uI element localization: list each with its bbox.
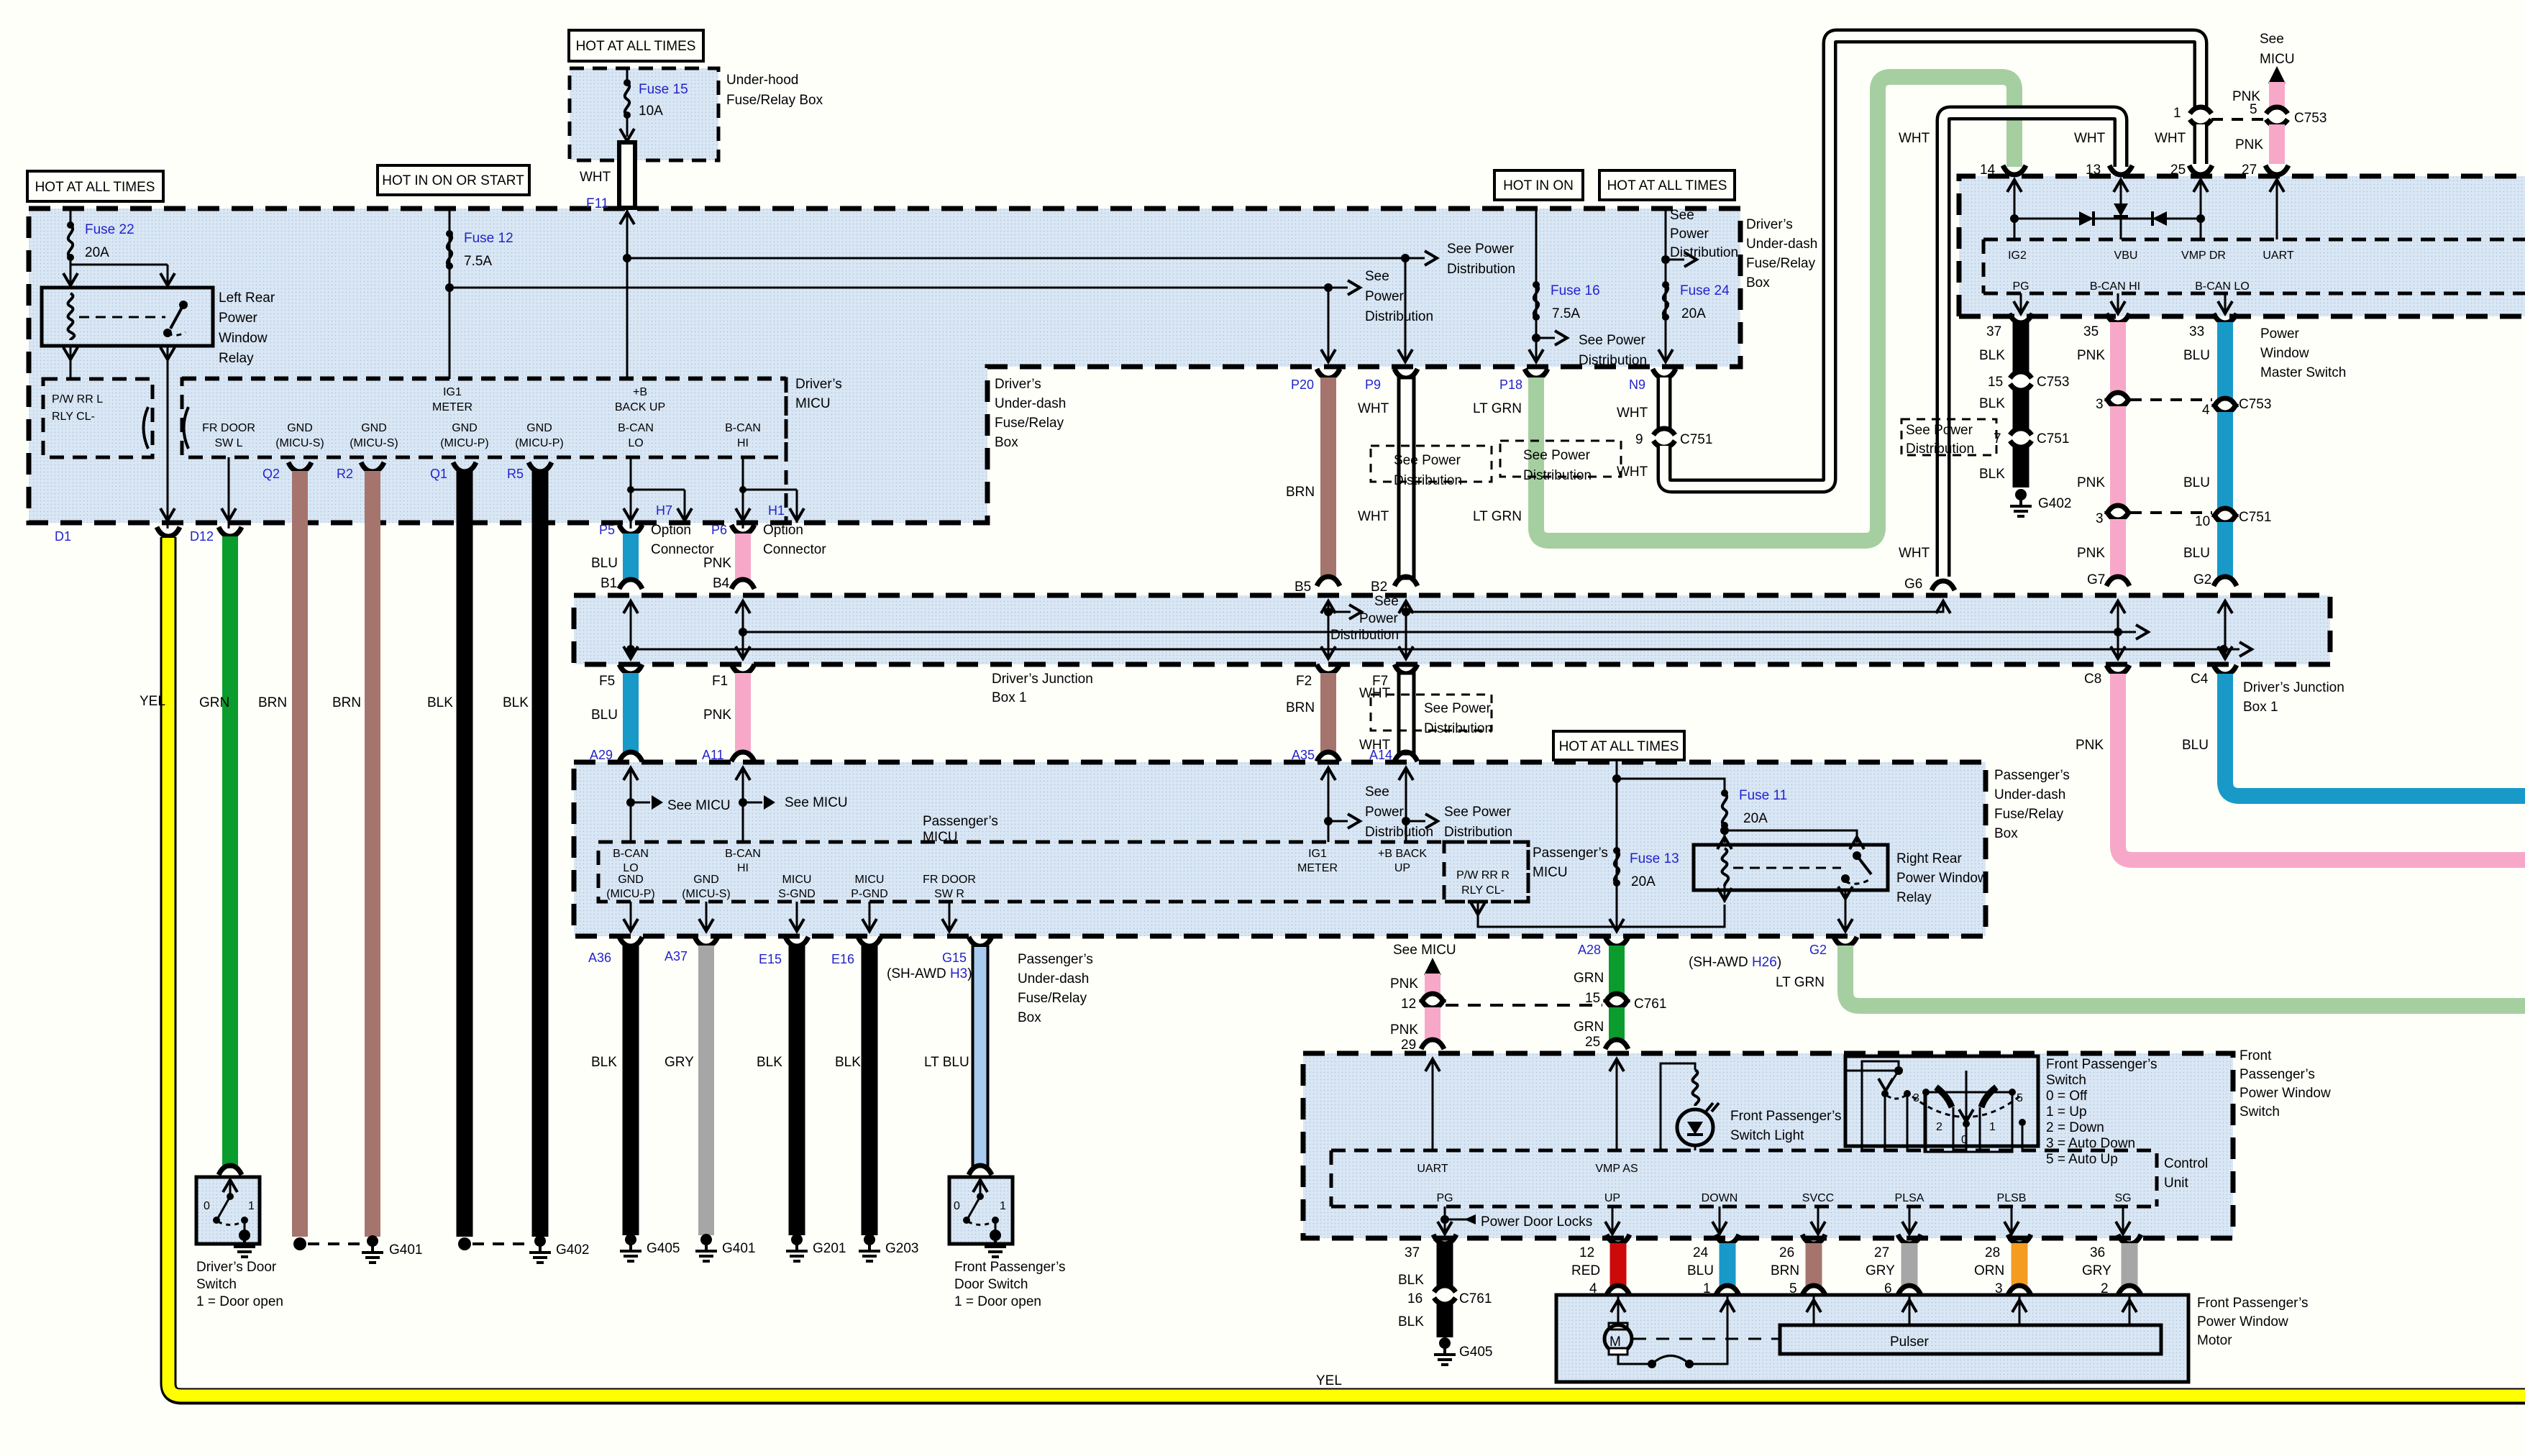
- svg-text:PNK: PNK: [2077, 546, 2105, 561]
- 1/25 connector column: [2155, 106, 2212, 239]
- svg-text:12: 12: [1401, 997, 1416, 1012]
- svg-text:LO: LO: [628, 437, 643, 449]
- svg-text:37: 37: [1405, 1245, 1420, 1260]
- svg-text:E15: E15: [759, 952, 782, 966]
- svg-text:F5: F5: [599, 674, 615, 689]
- relay outputs: [1717, 886, 1853, 933]
- svg-text:R2: R2: [337, 467, 353, 481]
- svg-text:Under-dash: Under-dash: [1994, 787, 2065, 802]
- svg-text:PNK: PNK: [1390, 1022, 1418, 1038]
- D1 yellow wire: [55, 508, 2525, 1396]
- svg-text:Driver’s: Driver’s: [995, 377, 1041, 392]
- svg-text:WHT: WHT: [580, 170, 611, 185]
- svg-text:BLU: BLU: [2183, 546, 2210, 561]
- svg-text:Connector: Connector: [651, 542, 714, 557]
- svg-text:R5: R5: [507, 467, 524, 481]
- svg-text:IG2: IG2: [2008, 249, 2027, 262]
- Q2 dashed to G401: [308, 1242, 360, 1245]
- svg-text:5: 5: [1789, 1281, 1797, 1296]
- svg-text:12: 12: [1579, 1245, 1594, 1260]
- svg-text:C8: C8: [2084, 672, 2101, 687]
- svg-text:Passenger’s: Passenger’s: [923, 814, 998, 829]
- power door locks: [1438, 1207, 1592, 1235]
- svg-text:Right Rear: Right Rear: [1896, 851, 1962, 866]
- torn SPD at F7: [1371, 695, 1492, 736]
- master switch inner wiring: [2010, 203, 2205, 226]
- relay outputs: [63, 346, 175, 528]
- svg-text:BLU: BLU: [2183, 475, 2210, 490]
- svg-text:BACK UP: BACK UP: [615, 401, 665, 413]
- svg-text:24: 24: [1693, 1245, 1709, 1260]
- svg-text:25: 25: [2170, 162, 2186, 178]
- svg-text:See: See: [1670, 208, 1694, 223]
- svg-text:GND: GND: [693, 874, 719, 886]
- svg-text:Fuse/Relay: Fuse/Relay: [1994, 807, 2064, 822]
- svg-text:6: 6: [1884, 1281, 1892, 1296]
- G15 lt blu: [887, 937, 992, 1175]
- svg-text:PNK: PNK: [2077, 475, 2105, 490]
- svg-text:Distribution: Distribution: [1523, 468, 1592, 483]
- svg-text:PNK: PNK: [703, 708, 731, 723]
- svg-text:S-GND: S-GND: [778, 888, 816, 900]
- svg-text:(MICU-P): (MICU-P): [515, 437, 564, 449]
- svg-text:MICU: MICU: [795, 396, 831, 411]
- svg-text:LO: LO: [623, 862, 638, 874]
- E15 black: [757, 937, 846, 1261]
- svg-text:LT GRN: LT GRN: [1776, 975, 1825, 990]
- front passenger door switch: [949, 1177, 1013, 1257]
- svg-text:MICU: MICU: [2260, 52, 2295, 67]
- svg-text:UP: UP: [1604, 1192, 1620, 1204]
- svg-text:C761: C761: [1459, 1291, 1492, 1306]
- svg-text:1: 1: [1989, 1121, 1996, 1133]
- svg-text:VMP DR: VMP DR: [2181, 249, 2226, 262]
- svg-text:+B BACK: +B BACK: [1378, 848, 1427, 860]
- svg-text:25: 25: [1585, 1035, 1600, 1050]
- svg-text:10: 10: [2195, 514, 2210, 529]
- svg-text:WHT: WHT: [1617, 464, 1648, 480]
- P6 PNK segment: [703, 523, 826, 591]
- svg-text:(MICU-S): (MICU-S): [275, 437, 324, 449]
- svg-text:C761: C761: [1634, 997, 1666, 1012]
- svg-text:Distribution: Distribution: [1394, 473, 1462, 488]
- svg-text:BLK: BLK: [835, 1055, 861, 1070]
- svg-text:Under-dash: Under-dash: [1018, 971, 1089, 986]
- svg-text:Window: Window: [219, 331, 268, 346]
- svg-text:1: 1: [1703, 1281, 1711, 1296]
- svg-text:36: 36: [2090, 1245, 2105, 1260]
- svg-text:Option: Option: [763, 523, 803, 538]
- D12 green wire: [190, 527, 242, 1175]
- svg-text:Fuse 15: Fuse 15: [639, 82, 688, 97]
- bottom connector wires: [1398, 1235, 1492, 1365]
- svg-text:BRN: BRN: [1771, 1263, 1799, 1278]
- svg-text:P/W RR R: P/W RR R: [1456, 869, 1510, 882]
- svg-text:A36: A36: [588, 951, 611, 965]
- svg-text:See Power: See Power: [1394, 453, 1461, 468]
- svg-text:UP: UP: [1394, 862, 1410, 874]
- svg-text:Unit: Unit: [2164, 1176, 2189, 1191]
- svg-text:A35: A35: [1292, 748, 1315, 762]
- svg-text:BLK: BLK: [1979, 467, 2005, 482]
- svg-text:H7: H7: [656, 503, 672, 518]
- C8 pink run: [2076, 665, 2525, 860]
- E16 black: [831, 937, 918, 1261]
- svg-text:BLK: BLK: [503, 695, 529, 710]
- fuse 13 column: [1609, 760, 1679, 933]
- svg-text:G402: G402: [556, 1242, 589, 1258]
- pin 14 green entry: [1980, 162, 2026, 239]
- left rear power window relay: [42, 288, 275, 366]
- svg-text:C4: C4: [2191, 672, 2209, 687]
- pulser box: [1780, 1325, 2161, 1354]
- svg-text:PNK: PNK: [703, 556, 731, 571]
- svg-text:Control: Control: [2164, 1156, 2208, 1171]
- svg-text:C751: C751: [1680, 432, 1712, 447]
- P18 LT GRN column + run: [1473, 77, 2014, 541]
- svg-text:HI: HI: [737, 862, 749, 874]
- svg-text:P6: P6: [711, 523, 727, 537]
- svg-text:Option: Option: [651, 523, 691, 538]
- driver MICU separator: [785, 378, 788, 523]
- svg-text:WHT: WHT: [2155, 131, 2186, 146]
- HOT AT ALL TIMES box (right): [1599, 170, 1735, 200]
- svg-text:GRY: GRY: [665, 1055, 694, 1070]
- master switch band: [1959, 176, 2525, 316]
- right rear power window relay: [1694, 845, 1988, 905]
- svg-text:Front Passenger’s: Front Passenger’s: [2046, 1057, 2158, 1072]
- svg-text:Front: Front: [2239, 1048, 2272, 1063]
- driver door switch: [196, 1177, 260, 1257]
- svg-text:Power: Power: [2260, 326, 2300, 342]
- svg-text:G203: G203: [885, 1241, 918, 1256]
- svg-text:A11: A11: [702, 748, 724, 762]
- fuse 11 branch: [1617, 779, 1864, 849]
- svg-text:GND: GND: [618, 874, 644, 886]
- svg-text:G15: G15: [942, 951, 967, 965]
- svg-text:YEL: YEL: [140, 694, 165, 709]
- HOT AT ALL TIMES label box (left): [27, 171, 163, 201]
- svg-text:Switch: Switch: [2239, 1104, 2280, 1120]
- svg-text:ORN: ORN: [1974, 1263, 2004, 1278]
- junction box internals: [624, 601, 2252, 659]
- svg-text:See: See: [2260, 32, 2284, 47]
- pink into switch box: [1425, 1059, 1440, 1150]
- svg-text:Distribution: Distribution: [1424, 721, 1492, 736]
- B-CAN LO/HI option connector branches: [624, 457, 692, 528]
- svg-text:See: See: [1374, 594, 1399, 609]
- svg-text:HOT IN ON: HOT IN ON: [1503, 178, 1574, 193]
- svg-text:Switch: Switch: [2046, 1073, 2086, 1088]
- front passenger power window switch box: [1303, 1053, 2233, 1238]
- svg-text:1 = Door open: 1 = Door open: [196, 1294, 283, 1309]
- svg-text:Power: Power: [1365, 289, 1405, 304]
- B5->F2 brn segment: [1286, 664, 1340, 762]
- svg-text:1: 1: [2173, 106, 2181, 121]
- svg-text:PNK: PNK: [2235, 137, 2263, 152]
- C4 blue run: [2182, 665, 2525, 796]
- connector F11: [580, 142, 635, 211]
- svg-text:METER: METER: [432, 401, 472, 413]
- pin labels: [202, 386, 761, 449]
- svg-text:B-CAN: B-CAN: [613, 848, 649, 860]
- svg-text:BLK: BLK: [1398, 1273, 1424, 1288]
- svg-text:GND: GND: [287, 422, 313, 434]
- svg-text:GRY: GRY: [1866, 1263, 1895, 1278]
- svg-text:28: 28: [1985, 1245, 2000, 1260]
- svg-text:P18: P18: [1499, 377, 1522, 392]
- svg-text:+B: +B: [633, 386, 647, 398]
- svg-text:VBU: VBU: [2114, 249, 2138, 262]
- svg-text:A14: A14: [1369, 748, 1392, 762]
- svg-text:2: 2: [2101, 1281, 2109, 1296]
- svg-text:Under-dash: Under-dash: [1746, 237, 1817, 252]
- svg-text:E16: E16: [831, 952, 854, 966]
- svg-text:D12: D12: [190, 529, 214, 544]
- FR DOOR SW L wire: [222, 457, 236, 528]
- master switch pin box: [1983, 239, 2525, 293]
- svg-text:See Power: See Power: [1523, 448, 1591, 463]
- svg-text:G401: G401: [389, 1242, 422, 1258]
- svg-text:Power Window: Power Window: [2197, 1314, 2288, 1329]
- svg-text:Under-hood: Under-hood: [726, 73, 798, 88]
- svg-text:YEL: YEL: [1316, 1373, 1342, 1388]
- svg-text:1: 1: [248, 1200, 255, 1212]
- svg-text:B-CAN: B-CAN: [618, 422, 654, 434]
- See MICU pink top right: [2232, 32, 2327, 239]
- svg-text:Q2: Q2: [262, 467, 280, 481]
- svg-text:(MICU-S): (MICU-S): [682, 888, 731, 900]
- svg-text:BLU: BLU: [2183, 348, 2210, 363]
- long feed line 1: [627, 257, 1405, 260]
- svg-text:Box: Box: [995, 435, 1018, 450]
- svg-text:WHT: WHT: [1899, 131, 1930, 146]
- F5 BLU segment: [590, 664, 642, 762]
- svg-text:27: 27: [2242, 162, 2257, 178]
- svg-text:PG: PG: [1436, 1192, 1453, 1204]
- svg-text:Passenger’s: Passenger’s: [1533, 846, 1608, 861]
- svg-text:20A: 20A: [1681, 306, 1706, 321]
- svg-text:Fuse 16: Fuse 16: [1551, 283, 1600, 298]
- svg-text:Distribution: Distribution: [1579, 353, 1647, 368]
- svg-text:MICU: MICU: [855, 874, 885, 886]
- svg-text:Fuse/Relay: Fuse/Relay: [1018, 991, 1087, 1006]
- svg-text:GRN: GRN: [1574, 971, 1604, 986]
- svg-text:H1: H1: [768, 503, 785, 518]
- svg-text:BLK: BLK: [427, 695, 453, 710]
- svg-text:SG: SG: [2114, 1192, 2131, 1204]
- P20 BRN column: [1286, 369, 1340, 595]
- svg-text:3 = Auto Down: 3 = Auto Down: [2046, 1136, 2135, 1151]
- svg-text:See Power: See Power: [1447, 242, 1515, 257]
- micu curve marks: [144, 407, 149, 449]
- svg-text:BLK: BLK: [1979, 348, 2005, 363]
- svg-text:MICU: MICU: [782, 874, 812, 886]
- svg-text:5 = Auto Up: 5 = Auto Up: [2046, 1152, 2118, 1167]
- HOT IN ON box: [1494, 170, 1583, 200]
- wire F11 into band: [620, 208, 634, 379]
- Q1 black wire: [427, 462, 476, 1250]
- svg-text:G402: G402: [2038, 496, 2071, 511]
- svg-text:37: 37: [1986, 324, 2001, 339]
- svg-text:4: 4: [1589, 1281, 1597, 1296]
- svg-text:GRN: GRN: [199, 695, 229, 710]
- dashed link 1-5: [2211, 118, 2264, 121]
- svg-text:Relay: Relay: [1896, 890, 1932, 905]
- svg-text:Fuse 12: Fuse 12: [464, 231, 513, 246]
- svg-text:(MICU-S): (MICU-S): [350, 437, 398, 449]
- driver MICU pin box: [182, 379, 786, 457]
- svg-text:P/W RR L: P/W RR L: [52, 393, 103, 406]
- Q2 brown wire: [258, 462, 311, 1250]
- svg-text:Pulser: Pulser: [1890, 1334, 1930, 1350]
- motor box: [1556, 1295, 2188, 1382]
- svg-text:FR DOOR: FR DOOR: [202, 422, 255, 434]
- see power distribution line2: [1321, 269, 1433, 363]
- svg-text:HI: HI: [737, 437, 749, 449]
- torn SPD at BLK col: [1901, 419, 1996, 457]
- passenger band: [574, 762, 1986, 936]
- svg-text:Fuse 22: Fuse 22: [85, 222, 134, 237]
- svg-text:HOT AT ALL TIMES: HOT AT ALL TIMES: [1559, 739, 1679, 754]
- svg-text:Power: Power: [219, 311, 258, 326]
- svg-text:0: 0: [954, 1200, 960, 1212]
- svg-text:15: 15: [1585, 991, 1600, 1006]
- R5 black wire + G402: [503, 462, 589, 1263]
- control unit outputs: [1605, 1207, 2130, 1235]
- svg-text:(MICU-P): (MICU-P): [440, 437, 489, 449]
- svg-text:Driver’s Door: Driver’s Door: [196, 1260, 277, 1275]
- svg-text:15: 15: [1988, 375, 2003, 390]
- svg-text:16: 16: [1407, 1291, 1423, 1306]
- svg-text:Driver’s: Driver’s: [795, 377, 842, 392]
- svg-text:B-CAN LO: B-CAN LO: [2195, 280, 2250, 293]
- svg-text:VMP AS: VMP AS: [1595, 1163, 1638, 1175]
- svg-text:PNK: PNK: [2076, 738, 2104, 753]
- svg-text:Driver’s Junction: Driver’s Junction: [2243, 680, 2344, 695]
- svg-text:4: 4: [2202, 403, 2210, 418]
- N9 WHT column + loop to pin25: [1617, 36, 2201, 486]
- F1 PNK segment: [702, 664, 754, 762]
- svg-text:BLK: BLK: [757, 1055, 782, 1070]
- svg-text:7.5A: 7.5A: [464, 254, 492, 269]
- under-hood fuse/relay box: [570, 68, 823, 160]
- svg-text:Fuse/Relay: Fuse/Relay: [995, 416, 1064, 431]
- svg-text:WHT: WHT: [1899, 546, 1930, 561]
- svg-text:1: 1: [1000, 1200, 1006, 1212]
- svg-text:G7: G7: [2087, 572, 2105, 587]
- svg-text:2: 2: [1936, 1121, 1942, 1133]
- svg-text:FR DOOR: FR DOOR: [923, 874, 976, 886]
- svg-text:Power: Power: [1359, 611, 1399, 626]
- svg-text:Passenger’s: Passenger’s: [2239, 1067, 2315, 1082]
- svg-text:HOT AT ALL TIMES: HOT AT ALL TIMES: [576, 39, 696, 54]
- svg-text:SVCC: SVCC: [1802, 1192, 1834, 1204]
- svg-text:20A: 20A: [1743, 811, 1768, 826]
- svg-text:Distribution: Distribution: [1444, 825, 1512, 840]
- svg-text:BLK: BLK: [1979, 396, 2005, 411]
- svg-text:MICU: MICU: [1533, 865, 1568, 880]
- dashed link 12-15: [1446, 1004, 1602, 1007]
- svg-text:10A: 10A: [639, 104, 663, 119]
- svg-text:14: 14: [1980, 162, 1996, 178]
- svg-text:Master Switch: Master Switch: [2260, 365, 2346, 380]
- svg-text:See MICU: See MICU: [667, 798, 731, 813]
- svg-text:C753: C753: [2294, 111, 2327, 126]
- svg-text:See Power: See Power: [1579, 333, 1646, 348]
- svg-text:See Power: See Power: [1444, 805, 1512, 820]
- svg-text:5: 5: [2017, 1092, 2023, 1104]
- svg-text:See: See: [1365, 784, 1389, 800]
- svg-text:DOWN: DOWN: [1702, 1192, 1738, 1204]
- svg-text:See: See: [1365, 269, 1389, 284]
- svg-text:SW R: SW R: [934, 888, 964, 900]
- A28 green column: [1574, 937, 1666, 1050]
- G6: [1402, 577, 1955, 616]
- svg-text:SW L: SW L: [214, 437, 242, 449]
- svg-text:Box: Box: [1018, 1010, 1041, 1025]
- svg-text:Distribution: Distribution: [1330, 628, 1399, 643]
- svg-text:C753: C753: [2239, 397, 2271, 412]
- svg-text:BRN: BRN: [258, 695, 287, 710]
- svg-text:HOT IN ON OR START: HOT IN ON OR START: [382, 173, 524, 188]
- svg-text:BLU: BLU: [1687, 1263, 1714, 1278]
- svg-text:5: 5: [2250, 102, 2257, 117]
- A37 gray: [665, 937, 755, 1261]
- P5 BLU segment: [591, 523, 714, 591]
- svg-text:P20: P20: [1291, 377, 1314, 392]
- svg-text:LT GRN: LT GRN: [1473, 509, 1522, 524]
- B-CAN LO blue column: [2183, 293, 2237, 587]
- P/W RR R output to relay coil: [1471, 902, 1725, 927]
- svg-text:WHT: WHT: [1358, 401, 1389, 416]
- A29->B-CAN LO col: [624, 768, 731, 842]
- svg-text:Fuse 11: Fuse 11: [1739, 788, 1787, 803]
- svg-text:G405: G405: [647, 1241, 680, 1256]
- svg-text:G2: G2: [1809, 943, 1827, 957]
- svg-text:BRN: BRN: [332, 695, 361, 710]
- svg-text:3: 3: [1995, 1281, 2003, 1296]
- svg-text:F2: F2: [1296, 674, 1312, 689]
- green into switch box: [1609, 1059, 1624, 1150]
- fuse 12: [445, 209, 513, 379]
- svg-text:7.5A: 7.5A: [1552, 306, 1580, 321]
- svg-text:Switch Light: Switch Light: [1730, 1128, 1804, 1143]
- P9 torn SPD: [1371, 446, 1492, 488]
- fuse 24 column: [1658, 208, 1738, 363]
- svg-text:Power Window: Power Window: [1896, 871, 1988, 886]
- svg-text:BRN: BRN: [1286, 700, 1315, 715]
- switch light branch: [1661, 1063, 1842, 1150]
- svg-text:RED: RED: [1571, 1263, 1600, 1278]
- svg-text:Power: Power: [1365, 805, 1405, 820]
- svg-text:27: 27: [1874, 1245, 1889, 1260]
- svg-text:B-CAN HI: B-CAN HI: [2090, 280, 2140, 293]
- svg-text:35: 35: [2083, 324, 2099, 339]
- svg-text:B-CAN: B-CAN: [725, 422, 761, 434]
- svg-text:GND: GND: [452, 422, 478, 434]
- svg-text:B4: B4: [713, 576, 730, 591]
- svg-text:1 = Up: 1 = Up: [2046, 1104, 2087, 1120]
- svg-text:UART: UART: [2263, 249, 2293, 262]
- pin 13 WHT loop to G6: [1899, 113, 2132, 577]
- fuse 22: [67, 209, 134, 286]
- svg-text:C751: C751: [2037, 431, 2069, 447]
- HOT AT ALL TIMES label box (under-hood): [569, 30, 703, 61]
- P18 torn SPD: [1500, 441, 1621, 483]
- svg-text:Connector: Connector: [763, 542, 826, 557]
- svg-text:Q1: Q1: [430, 467, 447, 481]
